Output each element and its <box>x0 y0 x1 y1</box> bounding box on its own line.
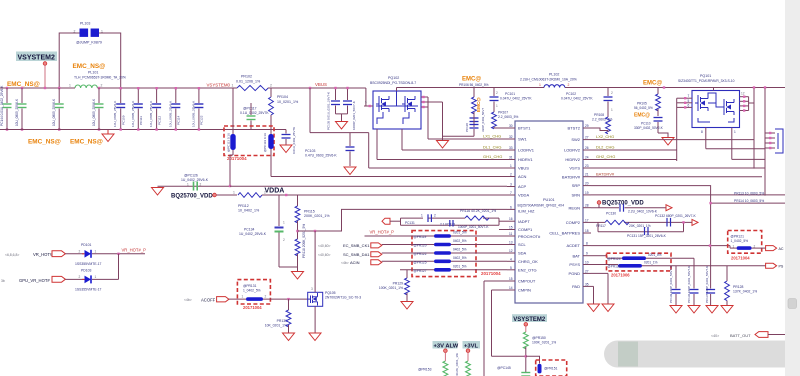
svg-text:1: 1 <box>733 245 735 249</box>
svg-text:+3V ALW: +3V ALW <box>434 343 459 349</box>
svg-text:ACP: ACP <box>518 184 527 189</box>
svg-text:1: 1 <box>69 84 71 88</box>
pin ticks PQ102 right <box>422 96 424 108</box>
wire PAD down <box>591 286 594 303</box>
svg-text:10_0201_1%: 10_0201_1% <box>277 100 299 104</box>
highlight box resistors PR124/PR126 <box>607 253 672 271</box>
wire PQ101 left gate stubs <box>677 98 692 107</box>
port circle +3V ALW <box>444 349 448 353</box>
svg-text:PC136 100P_0201_50V7-K: PC136 100P_0201_50V7-K <box>687 266 691 303</box>
svg-text:0402_5%: 0402_5% <box>453 239 467 243</box>
svg-text:20171004: 20171004 <box>731 256 750 261</box>
svg-text:40.2K_0201_1%: 40.2K_0201_1% <box>455 353 459 376</box>
svg-text:1: 1 <box>233 191 235 195</box>
port circle REGN VDD <box>597 201 601 205</box>
ground PC137 <box>706 306 718 314</box>
svg-text:@PC113 0.1U: @PC113 0.1U <box>227 133 231 152</box>
capacitor PC107 (branch x=99) <box>92 88 104 130</box>
ground at BQ25700_VDD node <box>152 188 164 196</box>
svg-text:6: 6 <box>688 103 690 107</box>
pin ticks PQ101 right <box>743 96 745 112</box>
capacitor PC131 body <box>645 227 649 235</box>
svg-text:PR102: PR102 <box>241 75 252 79</box>
resistor PR127 (bar) <box>400 264 507 272</box>
pin ticks PQ101 left <box>684 97 686 109</box>
svg-text:TLH_PCM0653T-1R0M0_TA_20%: TLH_PCM0653T-1R0M0_TA_20% <box>74 76 126 80</box>
svg-text:@JUMP_K0879: @JUMP_K0879 <box>76 41 102 45</box>
inductor PL101 coil <box>75 85 97 88</box>
svg-text:0.47U_0603_25V6-K: 0.47U_0603_25V6-K <box>305 154 337 158</box>
capacitor PC143 (branch x=22) <box>15 88 27 130</box>
wire PQ102 bottom pin to GH1 rail <box>376 129 378 160</box>
highlight box resistor PR151 <box>536 360 567 376</box>
svg-text:SRP: SRP <box>572 183 581 188</box>
svg-text:SW1: SW1 <box>518 137 527 142</box>
resistor PR124 body (bar) <box>608 253 662 261</box>
port arrow ACDET <box>766 246 777 251</box>
ground PR129 <box>401 302 413 310</box>
svg-text:VBUS: VBUS <box>518 166 529 171</box>
divider column x297.5 top <box>297 195 299 206</box>
svg-text:20171004: 20171004 <box>481 271 501 276</box>
highlight box resistor PR121 <box>728 231 762 254</box>
svg-text:26: 26 <box>585 146 589 150</box>
ground PR130 <box>283 333 295 341</box>
svg-text:PC101: PC101 <box>505 92 515 96</box>
wire jumper right <box>99 33 121 88</box>
ground below bottom bus <box>102 130 114 142</box>
transistor PQ101 box <box>692 91 740 128</box>
svg-text:PC103: PC103 <box>305 149 315 153</box>
port arrow IADPT (left pointing) <box>382 218 390 224</box>
svg-text:16: 16 <box>509 217 513 221</box>
mosfet internal connect lines <box>376 91 418 124</box>
ground divider <box>292 272 304 280</box>
svg-text:10U_0805_25V6-K: 10U_0805_25V6-K <box>92 98 96 126</box>
ground PR128 <box>721 306 733 314</box>
op-amp U1 / charger IC PU101 box <box>515 121 583 303</box>
transistor PQ105 box <box>308 292 323 306</box>
capacitor PC144 (branch x=7) <box>0 85 12 130</box>
wire cap box to ground node <box>230 155 233 186</box>
port ACIN <box>341 260 382 265</box>
resistor PR150 body (vertical green) <box>523 326 528 372</box>
IC left pin stubs <box>507 128 515 290</box>
wire ground branch of PQ102 <box>428 101 443 103</box>
wire rail LODRV1 (y150) <box>402 149 507 151</box>
capacitor PC117 body <box>247 103 256 130</box>
svg-text:PC112: PC112 <box>157 115 161 125</box>
ground PC116 <box>280 145 292 153</box>
mosfet PQ105 glyph <box>308 293 318 306</box>
mosfet Q_C glyph (inside PQ101) <box>695 95 708 111</box>
svg-text:PC122: PC122 <box>200 115 204 125</box>
ground PC136 <box>688 306 700 314</box>
wire PR121 to port <box>752 247 766 249</box>
svg-text:0402_5%: 0402_5% <box>453 248 467 252</box>
svg-text:BSC0925NDI_PG-TSDON-8-7: BSC0925NDI_PG-TSDON-8-7 <box>370 81 416 85</box>
wire bottom bus <box>0 129 286 131</box>
svg-text:<4b>: <4b> <box>341 261 349 265</box>
pin ticks connector <box>769 132 771 149</box>
svg-text:10U_0805_25V6-K: 10U_0805_25V6-K <box>168 100 172 127</box>
port GPU_VR_HOT# symbol <box>52 276 65 282</box>
svg-text:VDDA: VDDA <box>518 193 529 198</box>
svg-text:27: 27 <box>585 269 589 273</box>
svg-text:@PR126: @PR126 <box>608 265 621 269</box>
svg-text:PR106 56_0402_5%: PR106 56_0402_5% <box>459 83 489 87</box>
wire ILIM tap <box>298 209 508 231</box>
svg-text:0.1U_0402_25V7K: 0.1U_0402_25V7K <box>240 111 269 115</box>
RC loop wires <box>401 218 508 225</box>
svg-text:HIDRV1: HIDRV1 <box>518 157 533 162</box>
svg-text:2: 2 <box>434 213 436 217</box>
wire jumper left <box>59 33 79 88</box>
svg-text:330P_0402_50V2-K: 330P_0402_50V2-K <box>634 126 664 130</box>
wire SRN rail to edge (PR113 row) <box>591 194 786 196</box>
COMP1 stub wire <box>499 229 507 231</box>
resistor PR118 body (vertical) <box>295 239 300 256</box>
port EC_SMB_CK1 <box>318 243 382 248</box>
svg-text:0201_5%: 0201_5% <box>453 264 467 268</box>
svg-text:+3VL: +3VL <box>464 343 478 349</box>
svg-text:PROCHOT#: PROCHOT# <box>518 234 541 239</box>
svg-text:EMC_NS@: EMC_NS@ <box>70 139 103 146</box>
capacitor PC135 <box>327 88 341 130</box>
svg-text:23: 23 <box>585 164 589 168</box>
junction dot PR150 bottom <box>525 355 527 357</box>
wire top bus inductor to PR102 <box>98 87 238 89</box>
svg-text:SDA: SDA <box>518 251 527 256</box>
port circle BQ25700_VDD <box>213 193 217 197</box>
svg-text:11: 11 <box>509 232 513 236</box>
svg-text:PC137 100P_0201_50V7-K: PC137 100P_0201_50V7-K <box>705 266 709 303</box>
svg-text:BATT_OUT: BATT_OUT <box>730 333 751 338</box>
wire top bus left of inductor <box>0 87 75 89</box>
svg-text:SC_SMB_DA1: SC_SMB_DA1 <box>343 252 370 257</box>
net label +3VL <box>463 341 481 349</box>
ground PAD <box>588 304 600 312</box>
wire PQ102 right stubs <box>421 97 428 107</box>
wire junction to PR151 <box>526 356 540 363</box>
svg-text:COMP1: COMP1 <box>518 227 533 232</box>
port circle VSYSTEM2 bottom <box>524 323 528 327</box>
port SC_SMB_DA1 <box>318 252 382 257</box>
svg-text:14: 14 <box>509 286 513 290</box>
svg-text:PC144 0.01U_0402_25V6-K: PC144 0.01U_0402_25V6-K <box>0 85 4 126</box>
svg-text:3: 3 <box>311 287 313 291</box>
wire LODRV2 rail <box>591 149 677 151</box>
scrollbar thumb <box>788 299 797 309</box>
capacitor PC145 body <box>521 373 530 376</box>
svg-text:PQ105: PQ105 <box>325 291 336 295</box>
svg-text:GPU_VR_HOT#: GPU_VR_HOT# <box>19 278 50 283</box>
svg-text:PQ101: PQ101 <box>700 74 711 78</box>
resistor PR105 body (vertical) <box>656 88 661 117</box>
capacitor PC133 body (vertical plates) <box>450 220 453 227</box>
junction dot EMC right <box>663 86 665 88</box>
wire PQ105 drain up to ILIM node <box>314 231 316 292</box>
wire SRP to edge (PR114 row) <box>711 202 786 204</box>
capacitor PC134 body <box>275 221 286 268</box>
capacitor PC112 (bank x=156.6) <box>149 87 161 131</box>
svg-text:EMC@: EMC@ <box>462 77 481 83</box>
svg-text:0.047U_0402_25V7K: 0.047U_0402_25V7K <box>500 97 532 101</box>
svg-text:1: 1 <box>421 213 423 217</box>
wire to PD103 <box>65 278 84 280</box>
pin tick PQ102 left <box>369 105 371 107</box>
wire VBUS jog down <box>364 88 366 106</box>
svg-text:1: 1 <box>187 183 189 187</box>
capacitor PC137 <box>705 266 715 305</box>
wire ACDET row <box>591 246 737 249</box>
svg-text:56_0402_5%: 56_0402_5% <box>634 106 653 110</box>
svg-text:VSYSTEM2: VSYSTEM2 <box>513 317 546 323</box>
svg-text:10U_0805_25V6-K: 10U_0805_25V6-K <box>15 98 19 126</box>
svg-text:12: 12 <box>741 92 745 96</box>
wire PQ102 top drain entry <box>396 88 398 92</box>
svg-text:BTST1: BTST1 <box>518 126 531 131</box>
svg-text:EMC@: EMC@ <box>634 113 650 119</box>
svg-text:AC: AC <box>779 247 784 251</box>
svg-text:DL2_CHG: DL2_CHG <box>596 145 614 150</box>
resistor PR128 body (vertical) <box>725 266 730 305</box>
svg-text:2N7002WT1G_SC-70-3: 2N7002WT1G_SC-70-3 <box>325 296 361 300</box>
svg-text:31: 31 <box>509 156 513 160</box>
svg-text:VSYSTEM2: VSYSTEM2 <box>18 55 55 62</box>
svg-text:19: 19 <box>585 191 589 195</box>
svg-text:PR104: PR104 <box>277 95 288 99</box>
svg-text:2: 2 <box>101 84 103 88</box>
svg-text:137K_0402_1%: 137K_0402_1% <box>733 290 757 294</box>
svg-text:2.2U_0402_10V6-K: 2.2U_0402_10V6-K <box>628 210 658 214</box>
resistor PR104 body (vertical) <box>269 88 274 177</box>
svg-text:10U_0805_25V6-K: 10U_0805_25V6-K <box>131 100 135 127</box>
wire SRP rail with jog down <box>591 186 711 266</box>
svg-text:PC130: PC130 <box>606 212 616 216</box>
wire PC110 to ground <box>658 133 668 137</box>
svg-text:2: 2 <box>200 183 202 187</box>
ground PQ105 <box>309 333 321 341</box>
resistor PR108 body (vertical) <box>606 117 611 134</box>
wire VDDA down branch (x279) <box>278 195 280 226</box>
svg-text:VDDA: VDDA <box>265 188 285 195</box>
junction dot gate node <box>287 298 289 300</box>
ground bootstrap <box>437 136 449 148</box>
svg-text:100K_0201_1%: 100K_0201_1% <box>379 286 403 290</box>
resistor PR112 body <box>238 193 262 198</box>
svg-text:LODRV2: LODRV2 <box>564 148 581 153</box>
junction dot diode node <box>117 253 119 255</box>
highlight box resistors PR119-PR127 <box>412 231 476 277</box>
svg-text:15: 15 <box>509 226 513 230</box>
svg-text:1SS355VMTE-17: 1SS355VMTE-17 <box>75 262 101 266</box>
svg-text:32: 32 <box>509 135 513 139</box>
svg-text:CELL_BATPRES: CELL_BATPRES <box>549 231 580 236</box>
svg-text:PL102: PL102 <box>549 73 559 77</box>
svg-text:PD103: PD103 <box>81 268 91 272</box>
svg-text:0.047U_0402_25V7K: 0.047U_0402_25V7K <box>561 97 593 101</box>
svg-text:EMC_NS@: EMC_NS@ <box>73 63 106 70</box>
svg-text:@PC119 0.1U: @PC119 0.1U <box>263 133 267 152</box>
net label VSYSTEM2 (top-left) <box>16 52 57 62</box>
svg-text:PR113 10_0603_5%: PR113 10_0603_5% <box>734 191 764 195</box>
mosfet Q_B glyph (inside PQ102) <box>402 96 415 112</box>
svg-text:8: 8 <box>701 130 703 134</box>
svg-text:PAD: PAD <box>572 284 580 289</box>
wire phase node vertical x754 <box>753 88 755 169</box>
svg-text:6: 6 <box>510 205 512 209</box>
svg-text:PR129: PR129 <box>393 282 403 286</box>
svg-text:0201_5%: 0201_5% <box>648 253 662 257</box>
highlight box resistor PR131 <box>237 280 270 304</box>
wire SW2 top rail <box>565 87 786 89</box>
svg-text:PC139 100P_0201_50V7-K: PC139 100P_0201_50V7-K <box>669 266 673 303</box>
svg-text:10: 10 <box>585 261 589 265</box>
svg-text:5: 5 <box>688 99 690 103</box>
svg-text:PC134: PC134 <box>244 228 254 232</box>
svg-text:PSYS: PSYS <box>569 262 580 267</box>
svg-text:<6,8,6,8>: <6,8,6,8> <box>5 253 19 257</box>
svg-text:BQ25700A/RSNR_QFN32_4X4: BQ25700A/RSNR_QFN32_4X4 <box>518 204 565 208</box>
svg-text:20: 20 <box>585 182 589 186</box>
svg-text:1: 1 <box>539 83 541 87</box>
svg-text:SIZ340DTT1_PCM1RPAVR_3X3-S-10: SIZ340DTT1_PCM1RPAVR_3X3-S-10 <box>678 79 735 83</box>
port arrow REGN <box>666 205 672 211</box>
capacitor PC114 (bank x=175.8) <box>168 87 180 131</box>
wire port to RC loop <box>390 220 401 222</box>
svg-text:18: 18 <box>585 229 589 233</box>
wire ground run bootstrap <box>443 102 475 136</box>
svg-text:PC118: PC118 <box>465 123 469 132</box>
svg-text:0.01U_0402_25V7K: 0.01U_0402_25V7K <box>292 127 296 154</box>
svg-text:EMC_NS@: EMC_NS@ <box>28 139 61 146</box>
wire PQ101 right stubs <box>740 97 749 111</box>
svg-text:4: 4 <box>510 257 512 261</box>
wire SW2 rail <box>591 139 754 141</box>
svg-text:15: 15 <box>509 277 513 281</box>
svg-text:1: 1 <box>95 249 97 253</box>
junction dot VDDA <box>285 194 287 196</box>
svg-text:PC109: PC109 <box>122 115 126 125</box>
svg-text:EMC_NS@: EMC_NS@ <box>7 81 40 88</box>
svg-text:REGN: REGN <box>568 205 580 210</box>
svg-text:EMC@: EMC@ <box>643 81 662 87</box>
wire BATDRV rail <box>591 176 762 178</box>
wire BTST1 <box>494 127 507 129</box>
capacitor PC113 (in box) <box>227 88 236 155</box>
svg-text:9: 9 <box>586 252 588 256</box>
jumper PL103 body <box>80 29 89 37</box>
wire top bus PR102 to VBUS corner <box>268 87 366 89</box>
wire BATT_OUT to edge <box>768 334 786 336</box>
IC left pin names <box>518 126 541 293</box>
mosfet Q_D glyph (inside PQ101) <box>724 99 734 115</box>
wire PQ101 right column <box>749 97 754 111</box>
svg-text:DL1_CHG: DL1_CHG <box>483 145 501 150</box>
svg-text:<40>: <40> <box>711 334 719 338</box>
svg-text:PL101: PL101 <box>88 71 98 75</box>
IC left pin numbers <box>509 124 513 290</box>
COMP2 rc loop <box>598 222 684 231</box>
capacitor PC104 <box>343 88 356 130</box>
svg-text:1: 1 <box>242 294 244 298</box>
resistor PR121 body (bar) <box>737 246 752 250</box>
wire COMP2 row <box>591 221 692 223</box>
svg-text:@PR124: @PR124 <box>608 257 621 261</box>
svg-text:21: 21 <box>585 173 589 177</box>
wire PR115 to junction <box>297 221 299 239</box>
resistor PR102 body <box>237 85 268 90</box>
svg-text:VR_HOT#_P: VR_HOT#_P <box>122 248 147 253</box>
wire rail ACN (y176.5) <box>271 176 507 178</box>
wire bottom rail y148.7 <box>706 148 765 150</box>
svg-text:2: 2 <box>265 294 267 298</box>
wire VSYS rail <box>591 167 765 169</box>
wire PR118 to ground <box>297 254 299 271</box>
svg-text:30: 30 <box>509 124 513 128</box>
svg-text:27: 27 <box>585 136 589 140</box>
svg-text:GH2_CHG: GH2_CHG <box>596 154 615 159</box>
svg-text:10K_0201_1%: 10K_0201_1% <box>265 324 287 328</box>
IC right pin names <box>549 126 580 289</box>
wire REGN row <box>591 204 666 207</box>
svg-text:12: 12 <box>509 249 513 253</box>
junction dot divider <box>296 230 298 232</box>
svg-text:1: 1 <box>496 104 498 108</box>
svg-text:@PR122: @PR122 <box>414 252 427 256</box>
svg-text:@PR120: @PR120 <box>414 244 427 248</box>
svg-text:0402_5%: 0402_5% <box>453 256 467 260</box>
wire BTST2 row <box>583 128 608 131</box>
capacitor PC103 body <box>346 133 355 166</box>
svg-text:PL103: PL103 <box>80 22 90 26</box>
svg-text:1000P_0201_50V7-K: 1000P_0201_50V7-K <box>352 101 356 130</box>
svg-text:2.2_0603_5%: 2.2_0603_5% <box>498 115 518 119</box>
wire to PR112 <box>217 194 238 196</box>
capacitor PC126 body (green, inline) <box>187 182 202 191</box>
capacitor PC139 <box>669 266 681 305</box>
port circle +3VL <box>466 349 470 353</box>
svg-text:10U_0805_25V6-K: 10U_0805_25V6-K <box>113 100 117 127</box>
wire VCCA rail <box>262 194 507 196</box>
wire PD101 to node <box>92 253 145 255</box>
junction dot top rail x765 <box>764 86 766 88</box>
svg-text:28: 28 <box>585 204 589 208</box>
svg-text:VSYS: VSYS <box>569 166 580 171</box>
svg-text:0201_1%: 0201_1% <box>644 261 658 265</box>
wire battery node vertical x765 <box>764 88 766 196</box>
wire rail HIDRV1 (y159.5) <box>377 159 507 161</box>
wire to PD101 <box>65 253 84 255</box>
ground VBUS caps <box>336 122 348 130</box>
svg-text:ACOFF: ACOFF <box>201 297 216 302</box>
port arrow PSYS <box>766 263 777 268</box>
IC right pin stubs <box>583 128 591 286</box>
junction dot tap/PQ105 <box>314 230 316 232</box>
svg-text:PD101: PD101 <box>81 243 91 247</box>
svg-text:PS: PS <box>779 265 784 269</box>
pin numbers PQ101 bottom <box>701 130 736 134</box>
svg-text:24: 24 <box>585 156 589 160</box>
port BATT_OUT symbol <box>755 332 768 338</box>
wire CMPOUT vertical <box>484 281 507 376</box>
junction dots VBUS <box>309 87 349 89</box>
svg-text:PR128: PR128 <box>733 285 743 289</box>
junction dot ACDET <box>709 244 711 246</box>
svg-text:1: 1 <box>510 164 512 168</box>
svg-text:@PR131: @PR131 <box>243 284 257 288</box>
